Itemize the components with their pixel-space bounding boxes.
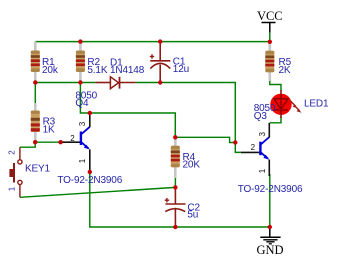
svg-text:TO-92-2N3906: TO-92-2N3906 — [238, 184, 303, 195]
svg-text:12u: 12u — [173, 64, 189, 75]
capacitor C2 — [165, 187, 186, 227]
capacitor C1 — [150, 43, 171, 82]
wire R4 top node to Q3 base node — [175, 137, 235, 142]
wire R4 bottom lead gap — [174, 178, 176, 188]
switch KEY1 — [9, 147, 22, 197]
svg-text:20k: 20k — [42, 65, 59, 76]
junction R4 top — [173, 135, 177, 139]
resistor R3 — [31, 103, 40, 141]
resistor R4 — [171, 139, 180, 178]
junction R2 bottom — [78, 80, 82, 84]
junction C1 top — [158, 39, 162, 43]
svg-text:1: 1 — [8, 186, 17, 191]
ground GND — [256, 227, 283, 257]
svg-text:3: 3 — [258, 132, 267, 137]
svg-text:TO-92-2N3906: TO-92-2N3906 — [57, 175, 122, 186]
junction GND node — [268, 225, 272, 229]
wire Q4 emitter down to bottom rail and GND node — [90, 172, 270, 227]
svg-text:5u: 5u — [187, 210, 198, 221]
svg-text:GND: GND — [256, 243, 283, 257]
power VCC — [257, 9, 283, 33]
wire R5 bottom to LED top — [270, 80, 281, 91]
svg-text:2: 2 — [251, 143, 256, 152]
svg-text:VCC: VCC — [257, 9, 283, 23]
svg-text:5.1K: 5.1K — [87, 65, 107, 76]
svg-text:2: 2 — [8, 150, 17, 155]
wire R2 bottom down and right to Q4 collector — [80, 83, 89, 114]
junction Q4 collector node — [88, 111, 92, 115]
wire KEY1 pin 1 to R4 bottom node (sloped) — [20, 187, 175, 197]
wire second rail left (R1 to D1 anode) — [35, 82, 95, 84]
junction R1 bottom — [33, 80, 37, 84]
junction R2 top — [78, 39, 82, 43]
svg-text:1: 1 — [78, 158, 87, 163]
svg-text:Q4: Q4 — [75, 98, 89, 109]
junction R3 bottom — [33, 140, 37, 144]
wire second rail right (D1 cathode to corner, down to Q3 base node) — [136, 83, 241, 153]
junction Q4 emitter node — [88, 170, 92, 174]
wire Q4 collector to R4 top — [90, 113, 176, 137]
svg-text:LED1: LED1 — [304, 98, 329, 109]
wire top rail — [35, 41, 269, 43]
wire LED bottom to Q3 collector — [270, 117, 281, 123]
svg-text:2K: 2K — [279, 65, 291, 76]
wire R3 bottom to Q4 base — [35, 141, 60, 143]
transistor Q3 — [241, 123, 269, 176]
junction Q4 base node — [58, 140, 62, 144]
junction R4 bottom — [173, 185, 177, 189]
LED LED1 — [270, 90, 301, 118]
junction VCC node — [268, 40, 272, 44]
resistor R2 — [76, 42, 85, 83]
wire R3 node to KEY1 pin 2 — [20, 142, 35, 147]
transistor Q4 — [61, 113, 90, 172]
svg-text:1K: 1K — [43, 125, 55, 136]
wire Q3 emitter to GND node — [269, 174, 271, 227]
diode D1 — [95, 77, 135, 89]
svg-text:2: 2 — [70, 134, 75, 143]
svg-text:1N4148: 1N4148 — [110, 65, 145, 76]
junction C1 bottom — [158, 80, 162, 84]
svg-text:3: 3 — [78, 121, 87, 126]
resistor R1 — [31, 42, 40, 83]
svg-text:KEY1: KEY1 — [25, 164, 51, 175]
svg-text:Q3: Q3 — [254, 111, 268, 122]
svg-text:20K: 20K — [183, 159, 201, 170]
svg-text:1: 1 — [258, 168, 267, 173]
wire R1 bottom to R3 top — [34, 83, 36, 104]
junction Q3 base node — [233, 140, 237, 144]
resistor R5 — [265, 44, 274, 82]
wire VCC stem green part — [269, 32, 271, 42]
junction C2 bottom — [173, 225, 177, 229]
